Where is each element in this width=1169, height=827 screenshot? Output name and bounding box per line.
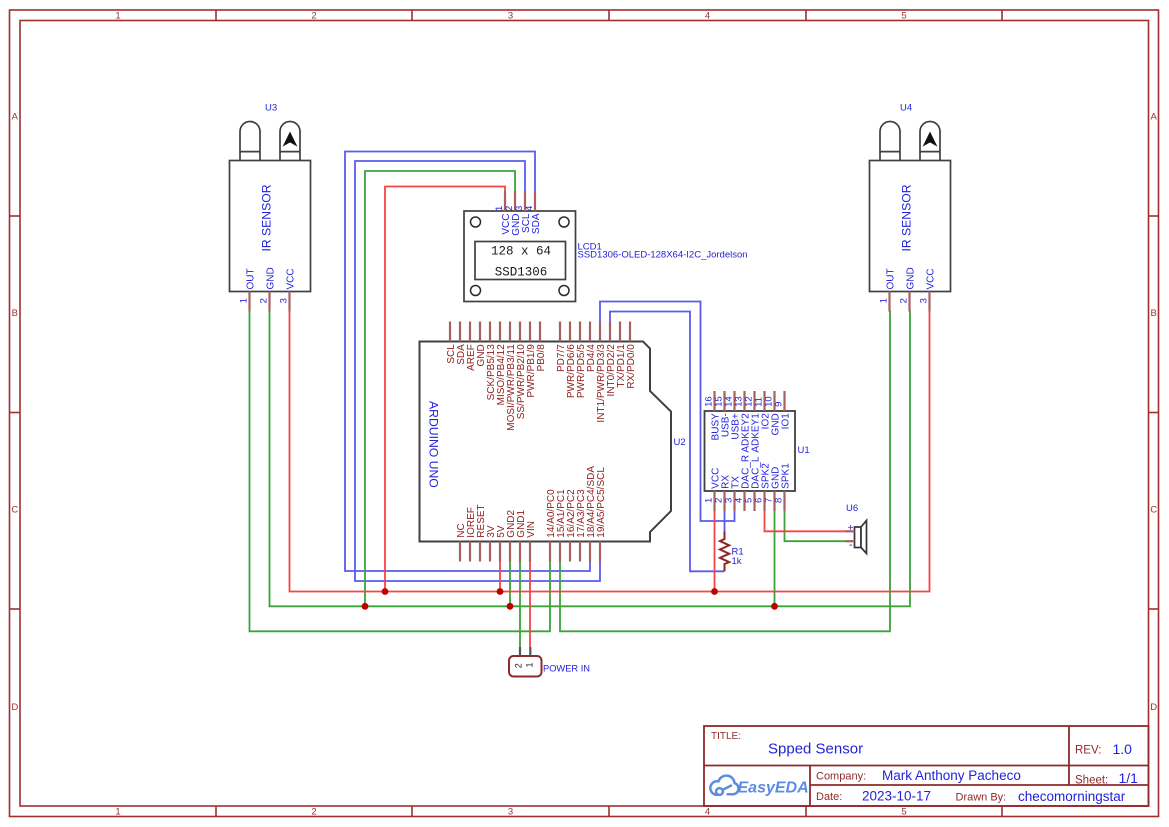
svg-text:SDA: SDA <box>531 213 542 234</box>
svg-text:1k: 1k <box>732 556 742 567</box>
U1 pin 13 ADKEY2 <box>743 391 745 411</box>
svg-text:PB0/8: PB0/8 <box>536 344 547 372</box>
svg-text:Mark Anthony Pacheco: Mark Anthony Pacheco <box>882 768 1021 783</box>
EasyEDA logo <box>710 776 738 795</box>
svg-text:19/A5/PC5/SCL: 19/A5/PC5/SCL <box>596 467 607 538</box>
svg-text:4: 4 <box>705 807 710 818</box>
POWER IN pin 1 <box>529 647 531 656</box>
junction on VCC bus at x=714.5 <box>711 588 718 595</box>
U2 pin PWR/PB1/9 <box>529 322 531 342</box>
svg-text:2: 2 <box>259 298 270 303</box>
U2 pin 17/A3/PC3 <box>579 542 581 562</box>
wire: U1 VCC to VCC bus <box>714 511 716 592</box>
resistor R1 <box>720 532 729 572</box>
svg-text:U2: U2 <box>674 437 686 448</box>
U4 pin 3 <box>928 292 930 312</box>
svg-text:1: 1 <box>239 298 250 303</box>
U2 pin NC <box>459 542 461 562</box>
U6 pin + <box>845 530 855 532</box>
junction on VCC bus at x=500 <box>497 588 504 595</box>
svg-text:A: A <box>12 112 19 123</box>
wire: U4 OUT to Arduino A1 <box>560 310 890 631</box>
svg-text:3: 3 <box>919 298 930 303</box>
U2 pin 16/A2/PC2 <box>569 542 571 562</box>
U1 pin 8 SPK1 <box>783 491 785 511</box>
U2 pin SCL <box>449 322 451 342</box>
svg-text:U3: U3 <box>265 103 277 114</box>
LCD1 pin 4 <box>534 191 536 211</box>
svg-text:EasyEDA: EasyEDA <box>738 779 809 796</box>
wire: GND bus U3 GND to U4 GND <box>270 310 911 606</box>
U2 pin RX/PD0/0 <box>629 322 631 342</box>
wire: Arduino D2 to R1 bottom <box>610 312 725 572</box>
svg-text:IR SENSOR: IR SENSOR <box>900 184 914 251</box>
U1 pin 7 GND <box>773 491 775 511</box>
U2 pin 3V <box>489 542 491 562</box>
U2 pin MISO/PB4/12 <box>499 322 501 342</box>
U1 pin 12 ADKEY1 <box>753 391 755 411</box>
wire: Arduino VIN to POWER IN pin 1 <box>529 562 531 648</box>
U2 pin 15/A1/PC1 <box>559 542 561 562</box>
wire: U1 SPK1 to speaker minus <box>785 511 846 541</box>
LCD1 pin 1 <box>504 191 506 211</box>
U2 pin INT1/PWR/PD3/3 <box>599 322 601 342</box>
U1 pin 14 USB+ <box>733 391 735 411</box>
svg-text:-: - <box>849 539 853 551</box>
svg-text:checomorningstar: checomorningstar <box>1018 789 1126 804</box>
svg-text:1: 1 <box>525 662 535 667</box>
svg-text:C: C <box>1150 505 1157 516</box>
svg-text:1: 1 <box>115 807 120 818</box>
U4 emitter arrow <box>923 132 938 147</box>
U2 pin GND2 <box>509 542 511 562</box>
wire: Arduino GND2 to GND bus <box>509 562 511 607</box>
U2 pin GND1 <box>519 542 521 562</box>
U2 pin MOSI/PWR/PB3/11 <box>509 322 511 342</box>
U1 pin 16 BUSY <box>713 391 715 411</box>
wire: U1 GND to GND bus <box>774 511 776 606</box>
svg-text:9: 9 <box>773 402 784 407</box>
U3 pin 2 <box>268 292 270 312</box>
svg-text:4: 4 <box>705 11 710 22</box>
svg-text:TITLE:: TITLE: <box>711 731 741 742</box>
svg-text:Date:: Date: <box>816 791 842 803</box>
U1 pin 9 IO1 <box>783 391 785 411</box>
POWER IN pin 2 <box>519 647 521 656</box>
U2 pin SCK/PB5/13 <box>489 322 491 342</box>
svg-text:B: B <box>1151 308 1157 319</box>
U1 pin 6 SPK2 <box>763 491 765 511</box>
U1 pin 1 VCC <box>713 491 715 511</box>
junction on GND bus at x=774.5 <box>771 603 778 610</box>
svg-text:2: 2 <box>513 663 523 668</box>
LCD1 pin 2 <box>514 191 516 211</box>
svg-text:1.0: 1.0 <box>1113 741 1133 757</box>
U2 pin 19/A5/PC5/SCL <box>599 542 601 562</box>
svg-text:C: C <box>11 505 18 516</box>
U2 pin PWR/PD6/6 <box>569 322 571 342</box>
title block <box>704 726 1149 806</box>
svg-text:VIN: VIN <box>526 521 537 538</box>
U2 pin 5V <box>499 542 501 562</box>
svg-text:D: D <box>11 702 18 713</box>
connector POWER IN body <box>509 656 542 677</box>
wire: Arduino GND1 to POWER IN pin 2 <box>519 562 521 648</box>
U2 pin SS/PWR/PB2/10 <box>519 322 521 342</box>
junction on GND bus at x=365 <box>362 603 369 610</box>
svg-text:SSD1306: SSD1306 <box>495 266 548 280</box>
svg-text:OUT: OUT <box>886 268 897 289</box>
wire: U1 SPK2 to speaker plus <box>765 511 846 531</box>
svg-text:Sheet:: Sheet: <box>1075 775 1108 787</box>
svg-text:OUT: OUT <box>246 268 257 289</box>
U2 pin GND <box>479 322 481 342</box>
svg-text:SSD1306-OLED-128X64-I2C_Jordel: SSD1306-OLED-128X64-I2C_Jordelson <box>578 250 748 261</box>
svg-text:U1: U1 <box>798 445 810 456</box>
svg-text:VCC: VCC <box>926 268 937 289</box>
U2 pin 14/A0/PC0 <box>549 542 551 562</box>
svg-text:Drawn By:: Drawn By: <box>956 792 1007 804</box>
U2 pin AREF <box>469 322 471 342</box>
U6 pin - <box>845 540 855 542</box>
U1 pin 10 GND <box>773 391 775 411</box>
U3 emitter arrow <box>283 132 298 147</box>
wire: LCD SCL to Arduino A5 (blue loop) <box>355 161 600 581</box>
U3 IR sensor body <box>230 122 311 292</box>
svg-text:D: D <box>1150 702 1157 713</box>
chip U1 body <box>705 411 796 491</box>
svg-text:1/1: 1/1 <box>1119 770 1139 786</box>
wire: Arduino D3 to U1 TX <box>600 302 735 522</box>
svg-text:5: 5 <box>901 11 906 22</box>
U4 pin 2 <box>908 292 910 312</box>
svg-text:8: 8 <box>773 498 784 503</box>
U2 pin TX/PD1/1 <box>619 322 621 342</box>
svg-text:2: 2 <box>311 11 316 22</box>
U2 pin PD4/4 <box>589 322 591 342</box>
wire: Arduino 5V to VCC bus <box>499 562 501 592</box>
U1 pin 4 DAC_R <box>743 491 745 511</box>
svg-text:POWER IN: POWER IN <box>543 664 590 674</box>
svg-text:RX/PD0/0: RX/PD0/0 <box>626 344 637 389</box>
U2 pin VIN <box>529 542 531 562</box>
svg-text:2: 2 <box>311 807 316 818</box>
U4 IR sensor body <box>870 122 951 292</box>
U3 pin 3 <box>288 292 290 312</box>
U1 pin 5 DAC_L <box>753 491 755 511</box>
svg-text:B: B <box>12 308 18 319</box>
svg-text:U6: U6 <box>846 503 858 514</box>
U1 pin 3 TX <box>733 491 735 511</box>
junction on GND bus at x=510 <box>507 603 514 610</box>
wire: U3 OUT to Arduino A0 <box>250 312 551 632</box>
svg-text:Company:: Company: <box>816 771 866 783</box>
svg-text:5: 5 <box>901 807 906 818</box>
svg-text:2: 2 <box>899 298 910 303</box>
svg-text:SPK1: SPK1 <box>781 463 792 489</box>
svg-text:IO1: IO1 <box>781 413 792 430</box>
U2 pin IOREF <box>469 542 471 562</box>
svg-text:Spped Sensor: Spped Sensor <box>768 741 863 758</box>
LCD1 mounting holes <box>471 217 570 296</box>
svg-text:A: A <box>1151 112 1158 123</box>
U2 pin PWR/PD5/5 <box>579 322 581 342</box>
U2 pin PD7/7 <box>559 322 561 342</box>
svg-text:REV:: REV: <box>1075 745 1101 757</box>
U2 pin SDA <box>459 322 461 342</box>
junction on VCC bus at x=385 <box>382 588 389 595</box>
U2 pin INT0/PD2/2 <box>609 322 611 342</box>
wire: R1 top to U1 RX <box>724 511 726 532</box>
svg-text:GND: GND <box>906 267 917 289</box>
svg-text:3: 3 <box>508 11 513 22</box>
svg-text:4: 4 <box>524 206 535 211</box>
U2 pin PB0/8 <box>539 322 541 342</box>
speaker U6 <box>855 521 867 554</box>
display LCD1 body <box>464 211 576 302</box>
wire: LCD SDA to Arduino A4 (blue loop) <box>345 152 590 572</box>
U1 pin 11 IO2 <box>763 391 765 411</box>
U1 pin 2 RX <box>723 491 725 511</box>
U3 pin 1 <box>248 292 250 312</box>
svg-text:1: 1 <box>115 11 120 22</box>
svg-text:+: + <box>848 523 854 534</box>
U1 pin 15 USB- <box>723 391 725 411</box>
svg-text:2023-10-17: 2023-10-17 <box>862 789 931 804</box>
LCD1 pin 3 <box>524 191 526 211</box>
svg-text:3: 3 <box>508 807 513 818</box>
svg-text:3: 3 <box>279 298 290 303</box>
svg-text:VCC: VCC <box>286 268 297 289</box>
U4 pin 1 <box>888 292 890 312</box>
svg-text:1: 1 <box>879 298 890 303</box>
wire: VCC bus U3 VCC to U4 VCC <box>290 310 930 591</box>
svg-text:128 x 64: 128 x 64 <box>491 244 551 258</box>
svg-text:GND: GND <box>266 267 277 289</box>
U2 pin 18/A4/PC4/SDA <box>589 542 591 562</box>
svg-text:IR SENSOR: IR SENSOR <box>260 184 274 251</box>
svg-text:U4: U4 <box>900 103 912 114</box>
U2 pin RESET <box>479 542 481 562</box>
svg-text:ARDUINO UNO: ARDUINO UNO <box>427 401 441 488</box>
op: Arduino UNO U2 body <box>420 342 672 542</box>
wire: LCD VCC to VCC bus <box>385 187 505 592</box>
wire: LCD GND to GND bus <box>365 171 515 606</box>
